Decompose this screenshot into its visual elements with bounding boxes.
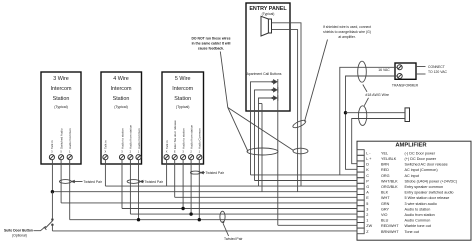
station2 audio-from wire [129,160,131,214]
svg-text:Audio to station: Audio to station [120,128,124,149]
svg-text:at amplifier.: at amplifier. [338,35,355,39]
svg-text:1: 1 [366,219,368,223]
twisted pair ellipse station3 [190,171,204,174]
3 Wire Intercom Station box [41,72,81,164]
svg-text:16 VAC: 16 VAC [378,68,390,72]
station3 door release wire [174,160,176,197]
If shielded note [323,25,371,39]
svg-text:Audio from station: Audio from station [189,124,193,149]
svg-text:Intercom: Intercom [111,86,132,92]
svg-text:DO NOT run these wires: DO NOT run these wires [191,37,230,41]
svg-text:Twisted Pair: Twisted Pair [83,180,102,184]
svg-text:Audio Common: Audio Common [405,219,431,223]
speaker wires to amplifier [272,23,302,192]
svg-text:cause feedback.: cause feedback. [198,47,224,51]
svg-text:BLK: BLK [381,191,389,195]
suite door button wire lower [51,226,53,231]
svg-text:CONNECT: CONNECT [428,65,445,69]
svg-text:AC input: AC input [405,174,420,178]
svg-text:Audio from station: Audio from station [405,213,435,217]
station2 terminal labels [104,124,141,149]
CONNECT TO 120 VAC label and leads [416,65,447,74]
station1 talk wire [51,160,53,192]
svg-text:BLU: BLU [381,219,389,223]
svg-text:YEL: YEL [381,151,388,155]
AMPLIFIER box [357,141,471,240]
station3 audio-from wire + dot [190,160,192,214]
svg-text:Audio to station: Audio to station [181,128,185,149]
amplifier terminal list text [366,151,458,233]
svg-text:ZW: ZW [366,224,372,228]
twisted pair ellipse below panel (buttons) [247,148,278,155]
svg-text:Strobe (U404) power (+24VDC): Strobe (U404) power (+24VDC) [405,179,458,183]
svg-text:D: D [366,163,369,167]
wire row 2 [130,213,357,215]
svg-text:(-) DC Door power: (-) DC Door power [405,151,436,155]
wire row 3 [122,208,357,210]
call button 2 [272,87,278,93]
svg-text:Intercom: Intercom [172,86,193,92]
svg-text:Twisted Pair: Twisted Pair [145,180,164,184]
svg-text:RED: RED [381,168,389,172]
svg-text:4 Wire: 4 Wire [113,76,129,82]
twisted pair ellipse station1 [59,180,82,184]
svg-text:Audio to station: Audio to station [405,207,431,211]
station3 audio-to wire + dot [182,160,184,209]
station3 screw terminals [164,155,202,160]
svg-text:3 Wire: 3 Wire [53,76,69,82]
svg-text:Entry speaker common: Entry speaker common [405,185,444,189]
svg-text:Warble tone out: Warble tone out [405,224,432,228]
svg-text:2: 2 [366,213,368,217]
junction dot strike tap [344,111,347,114]
svg-text:Tone out: Tone out [405,230,420,234]
svg-text:#18 AWG Wire: #18 AWG Wire [365,93,389,97]
svg-text:(Typical): (Typical) [114,105,128,109]
station3 terminal labels [165,120,202,149]
junction dot A row [51,190,54,193]
svg-text:VIO: VIO [381,213,388,217]
station1 switched audio wire [60,160,62,203]
svg-text:If shielded wire is used, conn: If shielded wire is used, connect [323,25,371,29]
station1 common wire [69,160,71,220]
station2 terminal numbers [105,149,140,153]
wire row 5 [61,202,357,204]
ENTRY PANEL box [246,3,290,111]
strike wires [346,113,406,164]
call button bracket wires [251,82,273,192]
svg-text:Station: Station [53,96,70,102]
svg-text:ORG/BLK: ORG/BLK [381,185,398,189]
svg-text:Audio Common: Audio Common [198,128,202,149]
svg-text:C: C [366,174,369,178]
station3 talk wire [166,160,168,186]
DO NOT note [191,37,230,51]
call button common rail wire [277,85,279,226]
twisted pair ellipse on strike pair [358,106,366,126]
svg-text:YEL/BLK: YEL/BLK [381,157,397,161]
station2 common wire + dot [138,160,140,220]
svg-text:AMPLIFIER: AMPLIFIER [395,143,427,149]
wire row Z from suite button [52,230,357,232]
4 Wire Intercom Station box [101,72,142,164]
svg-text:5 Wire: 5 Wire [175,76,191,82]
svg-text:Audio from station: Audio from station [129,124,133,149]
twisted pair ellipse on 16VAC pair [358,61,367,82]
svg-text:WHT/BLK: WHT/BLK [381,179,398,183]
svg-text:G: G [366,185,369,189]
svg-text:X: X [105,149,107,153]
call button 1 [272,79,278,85]
call button 3 [272,95,278,101]
station3 common wire + dot [198,160,200,220]
svg-text:L +: L + [366,157,371,161]
shield ellipse on speaker pair [292,119,307,129]
svg-text:(+) DC Door power: (+) DC Door power [405,157,437,161]
svg-text:Apartment Call Buttons: Apartment Call Buttons [247,72,282,76]
svg-text:E: E [174,149,176,153]
wire row P [255,180,358,182]
station2 screw terminals [103,155,141,160]
svg-text:shields to orange/black wire (: shields to orange/black wire (G) [323,30,371,34]
station2 audio-to wire [121,160,123,209]
svg-text:Station: Station [174,96,191,102]
wire row E [175,196,357,198]
svg-text:WHT: WHT [381,196,390,200]
svg-text:(Optional): (Optional) [12,234,27,238]
station3 terminal numbers [166,149,201,153]
amplifier terminal strip [357,150,364,234]
DO NOT note leader lines [220,52,293,152]
wire row ZW [278,224,357,226]
svg-text:Talk in: Talk in [50,140,54,149]
svg-text:(Typical): (Typical) [176,105,190,109]
svg-text:GRN: GRN [381,202,390,206]
svg-text:X: X [166,149,168,153]
station1 terminal numbers [51,149,71,153]
svg-text:Elec Sta door release: Elec Sta door release [173,120,177,149]
svg-text:3 wire station audio: 3 wire station audio [405,202,437,206]
wire row A [52,191,357,193]
svg-text:GRY: GRY [381,207,390,211]
If shielded note leader line [305,40,328,122]
svg-text:(Typical): (Typical) [262,12,275,16]
svg-text:Audio Common: Audio Common [137,128,141,149]
svg-text:5 Wire station door release: 5 Wire station door release [405,196,450,200]
svg-text:Twisted Pair: Twisted Pair [224,237,243,241]
svg-text:BRN: BRN [381,163,389,167]
svg-text:Twisted Pair: Twisted Pair [206,171,225,175]
5 Wire Intercom Station box [162,72,204,164]
svg-text:TRANSFORMER: TRANSFORMER [392,84,419,88]
svg-text:Talk in: Talk in [104,140,108,149]
station1 screw terminals [49,155,72,160]
svg-text:Intercom: Intercom [51,86,72,92]
svg-text:AC input (Common): AC input (Common) [405,168,439,172]
svg-text:(Typical): (Typical) [54,105,68,109]
svg-text:3: 3 [366,207,368,211]
svg-text:in the same cable! It will: in the same cable! It will [192,42,231,46]
station2 talk wire [104,160,106,186]
entry speaker [261,16,272,36]
svg-text:BRN/WHT: BRN/WHT [381,230,399,234]
svg-text:Switched AC door release: Switched AC door release [405,163,448,167]
wire row 1 [70,219,357,221]
station1 terminal labels [50,128,72,149]
twisted pair ellipse station2 [127,180,144,184]
Suite Door Button label [4,226,46,237]
svg-text:Station: Station [113,96,130,102]
svg-text:ORG: ORG [381,174,390,178]
wire row C [251,174,358,176]
door strike / strobe rectangle [405,108,410,122]
transformer box [392,63,419,88]
transformer primary wires to amplifier [340,67,397,175]
twisted pair ellipse below panel (speaker pair) [293,148,308,154]
svg-text:Audio Common: Audio Common [68,128,72,149]
svg-text:L -: L - [366,151,371,155]
svg-text:Switched Audio: Switched Audio [59,128,63,149]
svg-text:5: 5 [366,202,368,206]
svg-text:Talk in: Talk in [165,140,169,149]
svg-text:RED/WHT: RED/WHT [381,224,399,228]
wire row G [105,185,357,187]
suite door button symbol [44,219,53,230]
svg-text:Entry speaker switched audio: Entry speaker switched audio [405,191,454,195]
svg-text:TO 120 VAC: TO 120 VAC [428,70,447,74]
svg-text:Suite Door Button: Suite Door Button [4,229,33,233]
suite door button wire upper [51,192,53,219]
twisted pair ellipse bottom bundle [220,211,225,222]
